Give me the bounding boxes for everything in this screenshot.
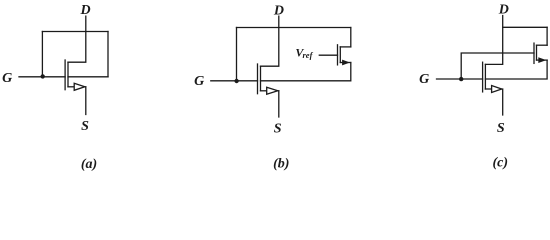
- transistor Q2 source lead with filled arrow (c): [537, 59, 548, 61]
- wire gate input (c): [437, 78, 483, 80]
- transistor Q2 channel bar (c): [536, 45, 538, 60]
- wire body line to Q2 source (c): [485, 60, 547, 79]
- wire drain lead D (a): [68, 16, 86, 62]
- svg-text:S: S: [274, 121, 282, 136]
- wire body line to Q2 source (b): [261, 63, 351, 81]
- wire node up and over to Q2 gate (c): [461, 53, 534, 79]
- wire gate input (b): [211, 80, 258, 82]
- wire node to top rail (a): [41, 32, 43, 77]
- transistor Q2 drain lead (c): [537, 44, 548, 46]
- wire right side down (a): [107, 32, 109, 77]
- wire node to top rail (b): [236, 28, 238, 81]
- wire drain lead D (b): [261, 16, 279, 66]
- node gate junction dot (c): [459, 77, 463, 81]
- transistor Q1 gate bar (a): [64, 60, 66, 90]
- wire drain lead D (c): [485, 16, 502, 65]
- transistor Q1 gate bar (c): [482, 62, 484, 92]
- node gate junction dot (b): [234, 79, 238, 83]
- svg-text:D: D: [80, 3, 91, 18]
- wire top rail (b): [237, 27, 351, 29]
- transistor Q1 gate bar (b): [257, 64, 259, 94]
- svg-text:(a): (a): [81, 157, 97, 172]
- wire rail down to Q2 drain (b): [350, 28, 352, 47]
- transistor Q2 drain lead (b): [340, 46, 351, 48]
- node gate junction dot (a): [41, 74, 45, 78]
- transistor Q2 source lead with filled arrow (b): [340, 62, 351, 64]
- wire body feedback line (a): [68, 76, 108, 78]
- transistor Q2 gate bar (c): [533, 43, 535, 63]
- svg-text:S: S: [81, 119, 89, 134]
- svg-text:ref: ref: [303, 50, 314, 60]
- transistor Q1 channel bar (b): [260, 66, 262, 91]
- transistor Q1 channel bar (c): [484, 64, 486, 89]
- transistor Q1 channel bar (a): [67, 62, 69, 87]
- transistor Q2 gate bar (b): [337, 45, 339, 65]
- svg-text:G: G: [194, 74, 204, 89]
- transistor Q1 source lead with arrow (b): [261, 90, 267, 92]
- transistor Q1 source lead with arrow (c): [485, 88, 491, 90]
- wire gate input (a): [19, 76, 65, 78]
- svg-text:G: G: [2, 71, 12, 86]
- svg-text:(b): (b): [273, 156, 289, 171]
- svg-text:(c): (c): [493, 155, 509, 170]
- transistor Q1 source lead with arrow (a): [68, 86, 74, 88]
- svg-text:G: G: [419, 72, 429, 87]
- wire Vref to Q2 gate (b): [319, 54, 337, 56]
- wire rail down to Q2 drain (c): [546, 27, 548, 45]
- svg-text:S: S: [497, 121, 505, 136]
- wire top rail (a): [42, 31, 108, 33]
- wire top rail (c): [503, 26, 547, 28]
- transistor Q2 channel bar (b): [339, 47, 341, 63]
